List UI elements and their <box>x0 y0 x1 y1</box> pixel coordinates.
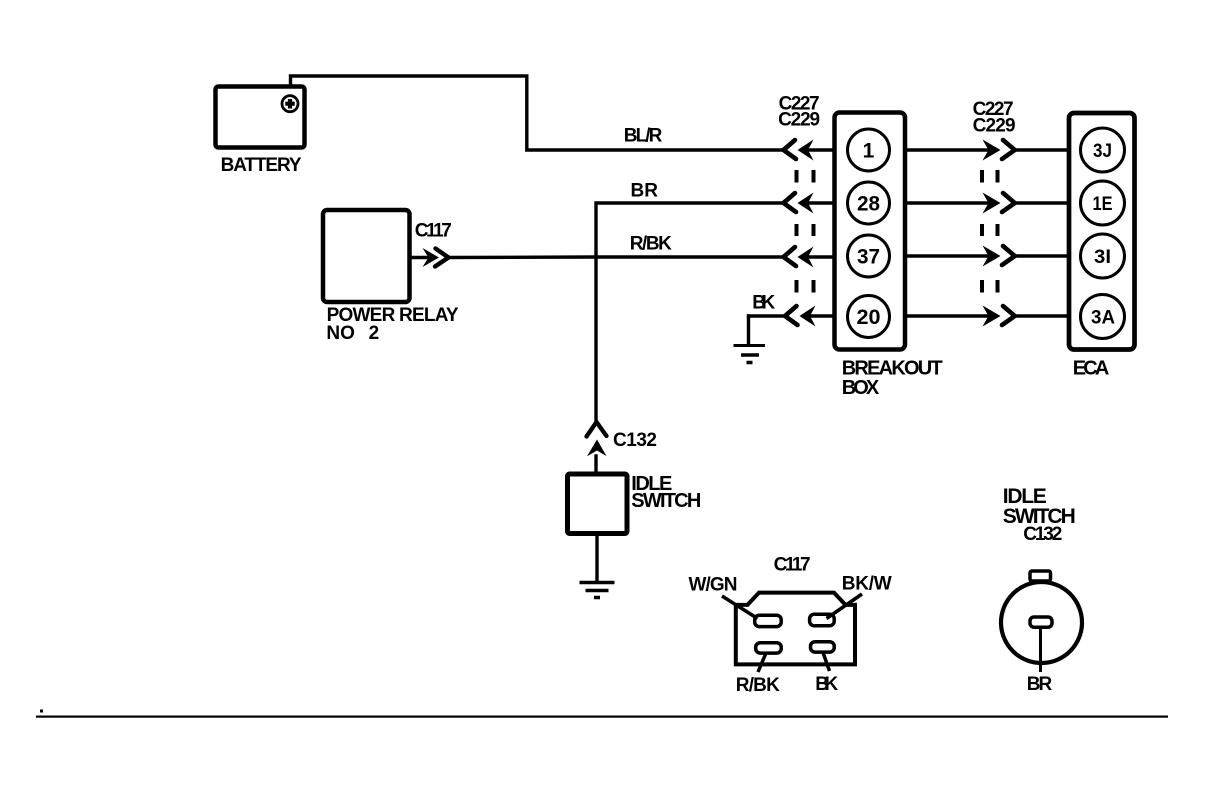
svg-text:37: 37 <box>857 246 880 269</box>
svg-text:BATTERY: BATTERY <box>221 155 302 176</box>
svg-text:C117: C117 <box>415 221 452 242</box>
svg-text:ECA: ECA <box>1073 358 1110 380</box>
svg-text:BOX: BOX <box>842 377 880 399</box>
svg-text:BK/W: BK/W <box>842 574 892 595</box>
svg-text:BK: BK <box>815 674 838 695</box>
svg-text:BK: BK <box>752 292 775 313</box>
svg-text:C229: C229 <box>973 116 1016 137</box>
svg-text:3J: 3J <box>1093 141 1112 162</box>
svg-text:C132: C132 <box>1023 524 1062 545</box>
svg-text:BL/R: BL/R <box>624 126 663 147</box>
svg-text:SWITCH: SWITCH <box>631 490 701 512</box>
svg-text:BREAKOUT: BREAKOUT <box>842 357 943 379</box>
svg-text:BR: BR <box>631 180 659 201</box>
svg-text:C117: C117 <box>774 554 811 575</box>
svg-text:20: 20 <box>857 306 881 329</box>
svg-text:1: 1 <box>863 140 875 163</box>
svg-text:3A: 3A <box>1091 308 1115 329</box>
svg-text:W/GN: W/GN <box>689 575 738 596</box>
svg-text:2: 2 <box>369 323 380 344</box>
svg-text:28: 28 <box>857 193 880 216</box>
svg-text:C229: C229 <box>778 110 820 131</box>
svg-text:R/BK: R/BK <box>630 233 672 254</box>
svg-text:BR: BR <box>1027 674 1053 695</box>
svg-text:1E: 1E <box>1093 194 1113 215</box>
svg-text:NO: NO <box>326 323 355 344</box>
svg-text:C132: C132 <box>613 430 657 451</box>
svg-text:3I: 3I <box>1094 247 1111 268</box>
svg-text:R/BK: R/BK <box>736 675 780 696</box>
